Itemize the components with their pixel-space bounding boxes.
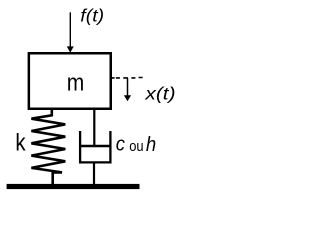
damper cylinder (open-top U)	[80, 131, 110, 162]
damper piston plate	[79, 145, 111, 147]
ground bar	[7, 184, 140, 189]
svg-text:ou: ou	[129, 138, 143, 155]
displacement dashed reference line	[112, 77, 143, 79]
svg-text:f(t): f(t)	[80, 5, 104, 25]
svg-text:k: k	[15, 130, 26, 157]
spring k (zigzag)	[31, 109, 65, 186]
svg-text:h: h	[146, 133, 156, 156]
damper lower rod	[93, 162, 95, 185]
damper piston rod	[93, 109, 95, 147]
svg-text:m: m	[67, 69, 85, 96]
displacement arrow x(t)	[127, 78, 129, 96]
mass M box	[29, 53, 111, 109]
force arrow f(t)	[69, 12, 71, 47]
svg-text:x(t): x(t)	[144, 84, 175, 104]
svg-text:c: c	[116, 134, 125, 156]
